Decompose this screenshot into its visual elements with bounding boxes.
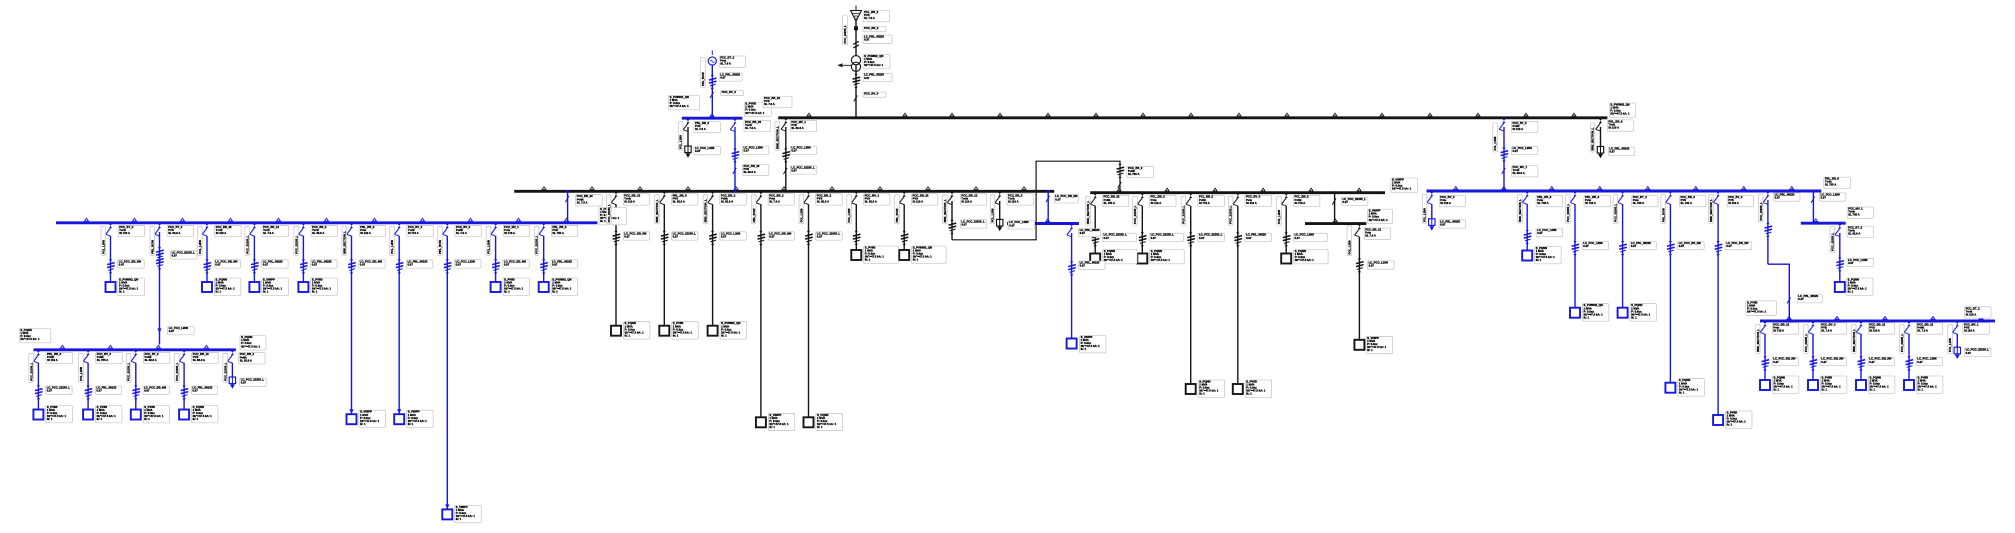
svg-text:PBL_BOW: PBL_BOW [438,240,442,254]
svg-text:Ik: 1: Ik: 1 [216,290,222,294]
svg-text:SL 7.6 A: SL 7.6 A [764,102,775,106]
svg-text:Ik: 1: Ik: 1 [263,290,269,294]
svg-text:PCC_BB_2: PCC_BB_2 [864,26,879,30]
svg-text:St 716 A: St 716 A [119,231,130,235]
svg-text:0.97: 0.97 [1513,149,1519,153]
svg-text:SL 7.6 A: SL 7.6 A [456,231,467,235]
svg-text:Ik: 1: Ik: 1 [1246,392,1252,396]
svg-text:0.97: 0.97 [1104,236,1110,240]
svg-text:SL 82.6 A: SL 82.6 A [193,358,205,362]
svg-text:PCL_L2N8: PCL_L2N8 [79,367,83,381]
svg-text:SL 7.6 A: SL 7.6 A [720,62,731,66]
svg-text:PCC_22235_L: PCC_22235_L [245,235,249,254]
svg-text:Ik: 1: Ik: 1 [504,290,510,294]
svg-text:SL 735 A: SL 735 A [1848,213,1859,217]
svg-text:0.97: 0.97 [1080,264,1086,268]
svg-text:PCC_22235_L: PCC_22235_L [29,362,33,381]
svg-text:SL 82.6 A: SL 82.6 A [791,126,803,130]
svg-text:Ik: 1: Ik: 1 [1727,423,1733,427]
svg-text:Sk"=47.5 kA: 1: Sk"=47.5 kA: 1 [1295,258,1315,262]
svg-text:Ik: 1: Ik: 1 [408,422,414,426]
svg-text:Sk"=47.5 kA: 1: Sk"=47.5 kA: 1 [1747,310,1767,314]
svg-text:0.97: 0.97 [864,38,870,42]
svg-text:PCC_22235_L: PCC_22235_L [1900,333,1904,352]
svg-text:St 119 A: St 119 A [1246,201,1257,205]
svg-text:SL 7.6 A: SL 7.6 A [695,127,706,131]
svg-text:0.97: 0.97 [1798,297,1804,301]
svg-text:BRK_SECTION_L: BRK_SECTION_L [704,199,708,222]
svg-text:SL 82.6 A: SL 82.6 A [721,199,733,203]
svg-text:Sk"=47.5 kA: 1: Sk"=47.5 kA: 1 [1392,187,1412,191]
svg-text:0.97: 0.97 [1631,244,1637,248]
svg-text:Ik: 1: Ik: 1 [1536,258,1542,262]
svg-text:0.97: 0.97 [96,389,102,393]
svg-text:0.97: 0.97 [1537,231,1543,235]
svg-text:0.97: 0.97 [552,262,558,266]
svg-text:Ik: 1: Ik: 1 [360,422,366,426]
svg-text:Ik: 1: Ik: 1 [1870,388,1876,392]
svg-text:0.97: 0.97 [1080,231,1086,235]
svg-text:BRK_SECTION_L: BRK_SECTION_L [1518,199,1522,222]
svg-text:PCC_22235_L: PCC_22235_L [1759,202,1763,221]
svg-text:Ik: 1: Ik: 1 [1679,390,1685,394]
svg-text:BRK_SECTION_L: BRK_SECTION_L [1709,199,1713,222]
svg-text:St 716 A: St 716 A [1773,329,1784,333]
svg-text:PCC_22235_L: PCC_22235_L [1182,205,1186,224]
svg-text:0.97: 0.97 [192,389,198,393]
svg-text:Sk"=47.5 kA: 1: Sk"=47.5 kA: 1 [241,344,261,348]
svg-text:0.97: 0.97 [169,329,175,333]
svg-text:PCL_L2N8: PCL_L2N8 [991,208,995,222]
svg-text:SL 82.6 A: SL 82.6 A [240,358,252,362]
svg-text:0.97: 0.97 [695,149,701,153]
svg-text:PBL_BOW: PBL_BOW [895,208,899,222]
svg-text:0.97: 0.97 [1775,195,1781,199]
svg-text:Sk"=47.5 kA: 1: Sk"=47.5 kA: 1 [864,63,884,67]
svg-text:Ik: 1: Ik: 1 [673,333,679,337]
svg-text:St 119 A: St 119 A [1728,201,1739,205]
svg-text:0.97: 0.97 [144,389,150,393]
svg-text:Ik: 1: Ik: 1 [1918,388,1924,392]
svg-text:St 119 A: St 119 A [1966,312,1977,316]
svg-text:BRK_SECTION_L: BRK_SECTION_L [1086,200,1090,223]
svg-text:PBL_BOW: PBL_BOW [752,208,756,222]
svg-text:SL 82.6 A: SL 82.6 A [312,231,324,235]
svg-text:0.97: 0.97 [263,262,269,266]
svg-text:0.97: 0.97 [1917,360,1923,364]
svg-text:0.97: 0.97 [1773,360,1779,364]
svg-text:St 716 A: St 716 A [504,231,515,235]
svg-text:St 119 A: St 119 A [913,199,924,203]
svg-text:0.97: 0.97 [456,262,462,266]
svg-text:0.97: 0.97 [408,262,414,266]
svg-text:0.97: 0.97 [312,262,318,266]
svg-text:BRK_SECTION_L: BRK_SECTION_L [655,199,659,222]
svg-text:Ik: 1: Ik: 1 [312,290,318,294]
svg-text:SL 82.6 A: SL 82.6 A [145,358,157,362]
svg-text:SL 735 A: SL 735 A [1633,201,1644,205]
svg-text:Ik: 1: Ik: 1 [913,258,919,262]
svg-text:BRK_SECTION_L: BRK_SECTION_L [1852,329,1856,352]
svg-text:Sk"=47.5 kA: 1: Sk"=47.5 kA: 1 [1151,258,1171,262]
svg-text:Sk"=47.5 kA: 1: Sk"=47.5 kA: 1 [1104,258,1124,262]
svg-text:PCC_22235_L: PCC_22235_L [175,362,179,381]
svg-text:PCL_L2N8: PCL_L2N8 [1277,209,1281,223]
svg-text:0.97: 0.97 [1295,236,1301,240]
svg-text:0.97: 0.97 [1609,150,1615,154]
svg-text:0.97: 0.97 [817,234,823,238]
svg-text:0.97: 0.97 [1199,236,1205,240]
svg-text:BRK_SECTION_L: BRK_SECTION_L [943,199,947,222]
svg-text:St 119 A: St 119 A [1151,201,1162,205]
svg-text:PCL_L2N8: PCL_L2N8 [847,208,851,222]
svg-text:SL 735 A: SL 735 A [97,358,108,362]
svg-text:PCC_22235_L: PCC_22235_L [127,362,131,381]
svg-text:PCL_L2N8: PCL_L2N8 [487,240,491,254]
svg-text:SL 82.6 A: SL 82.6 A [817,199,829,203]
svg-text:Ik: 1: Ik: 1 [817,425,823,429]
svg-text:PCC_BV_3: PCC_BV_3 [864,92,879,96]
svg-text:Ik: 1: Ik: 1 [97,417,103,421]
svg-text:Ik: 1: Ik: 1 [1584,315,1590,319]
svg-text:SL 7.6 A: SL 7.6 A [263,231,274,235]
svg-text:SL 82.6 A: SL 82.6 A [673,199,685,203]
svg-text:Ik: 1: Ik: 1 [1081,347,1087,351]
svg-text:0.97: 0.97 [720,75,726,79]
svg-text:SL 7.6 A: SL 7.6 A [745,126,756,130]
svg-text:0.97: 0.97 [1869,360,1875,364]
svg-text:0.97: 0.97 [1966,351,1972,355]
svg-text:SL 82.6 A: SL 82.6 A [1513,171,1525,175]
svg-text:SL 7.6 A: SL 7.6 A [1365,234,1376,238]
svg-text:Ik: 1: Ik: 1 [1367,348,1373,352]
svg-text:SL 7.6 A: SL 7.6 A [864,16,875,20]
svg-text:0.97: 0.97 [1583,244,1589,248]
svg-text:SL 7.6 A: SL 7.6 A [577,200,588,204]
svg-text:0.97: 0.97 [721,234,727,238]
svg-text:Sk"=47.5 kA: 1: Sk"=47.5 kA: 1 [1369,218,1389,222]
svg-text:0.97: 0.97 [624,234,630,238]
svg-text:Sk"=47.5 kA: 1: Sk"=47.5 kA: 1 [745,111,765,115]
svg-text:PCL_L2N8: PCL_L2N8 [1347,240,1351,254]
svg-text:PCL_L2N8: PCL_L2N8 [390,240,394,254]
svg-text:Ik: 1: Ik: 1 [1822,388,1828,392]
svg-text:St 119 A: St 119 A [1008,199,1019,203]
svg-text:0.97: 0.97 [215,262,221,266]
svg-text:0.97: 0.97 [1848,261,1854,265]
svg-text:0.97: 0.97 [961,222,967,226]
svg-text:PCC_22235_L: PCC_22235_L [1229,205,1233,224]
svg-text:SL 7.6 A: SL 7.6 A [769,199,780,203]
svg-text:St 119 A: St 119 A [360,231,371,235]
svg-text:PCL_L2N8: PCL_L2N8 [1423,208,1427,222]
svg-text:St 119 A: St 119 A [47,358,58,362]
svg-text:0.97: 0.97 [1055,197,1061,201]
svg-text:0.97: 0.97 [1246,236,1252,240]
svg-text:0.97: 0.97 [791,168,797,172]
svg-text:SL 735 A: SL 735 A [1825,183,1836,187]
svg-text:0.97: 0.97 [744,149,750,153]
svg-text:PBL_BOW: PBL_BOW [150,240,154,254]
svg-text:PCC_22235_L: PCC_22235_L [607,204,611,223]
svg-text:Ik: 1: Ik: 1 [456,517,462,521]
svg-text:PCL_L2N8: PCL_L2N8 [799,208,803,222]
svg-text:SL 82.6 A: SL 82.6 A [1848,232,1860,236]
svg-text:Ik: 1: Ik: 1 [193,417,199,421]
svg-text:St 716 A: St 716 A [408,231,419,235]
svg-text:0.97: 0.97 [241,381,247,385]
svg-text:0.97: 0.97 [1009,223,1015,227]
svg-text:0.97: 0.97 [119,262,125,266]
svg-text:St 119 A: St 119 A [1608,126,1619,130]
svg-text:St 716 A: St 716 A [1295,201,1306,205]
svg-text:SL 7.6 A: SL 7.6 A [1821,329,1832,333]
svg-text:PCC_BV_3: PCC_BV_3 [722,90,737,94]
svg-text:PCC_22235_L: PCC_22235_L [1133,205,1137,224]
svg-text:0.97: 0.97 [172,253,178,257]
svg-text:BRK_SECTION_L: BRK_SECTION_L [342,231,346,254]
svg-text:Ik: 1: Ik: 1 [600,219,606,223]
svg-text:PCL_L2N8: PCL_L2N8 [198,240,202,254]
svg-text:0.97: 0.97 [1679,244,1685,248]
svg-text:PCC_22235_L: PCC_22235_L [1614,203,1618,222]
svg-text:0.97: 0.97 [504,262,510,266]
svg-text:0.97: 0.97 [1369,263,1375,267]
svg-text:0.97: 0.97 [791,149,797,153]
svg-text:St 716 A: St 716 A [1585,201,1596,205]
svg-text:Ik: 1: Ik: 1 [865,258,871,262]
svg-text:0.97: 0.97 [1821,195,1827,199]
svg-text:0.97: 0.97 [864,76,870,80]
svg-text:SL 7.6 A: SL 7.6 A [1917,329,1928,333]
svg-text:0.97: 0.97 [1440,222,1446,226]
svg-text:St 119 A: St 119 A [216,231,227,235]
svg-text:PCL_L2N8: PCL_L2N8 [101,240,105,254]
svg-text:PCC_22235_L: PCC_22235_L [1566,203,1570,222]
svg-text:0.97: 0.97 [1821,360,1827,364]
svg-text:SL 82.6 A: SL 82.6 A [865,199,877,203]
svg-text:0.97: 0.97 [47,389,53,393]
svg-text:SL 82.6 A: SL 82.6 A [168,231,180,235]
svg-text:Ik: 1: Ik: 1 [721,333,727,337]
svg-text:St 119 A: St 119 A [1964,329,1975,333]
svg-text:St 119 A: St 119 A [1513,127,1524,131]
svg-text:Ik: 1: Ik: 1 [119,290,125,294]
svg-text:PCC_22235_L: PCC_22235_L [535,235,539,254]
svg-text:Sk"=47.5 kA: 1: Sk"=47.5 kA: 1 [670,104,690,108]
svg-text:Ik: 1: Ik: 1 [625,333,631,337]
svg-text:SL 735 A: SL 735 A [1104,201,1115,205]
svg-text:SL 735 A: SL 735 A [1128,172,1139,176]
svg-text:BRK_SECTION_L: BRK_SECTION_L [1756,329,1760,352]
svg-text:PCC_22235_L: PCC_22235_L [843,25,847,44]
svg-text:0.97: 0.97 [1151,236,1157,240]
svg-text:BRK_SECTION_L: BRK_SECTION_L [1591,127,1595,150]
svg-text:0.97: 0.97 [673,234,679,238]
svg-text:PCC_22235_L: PCC_22235_L [1830,232,1834,251]
svg-text:St 716 A: St 716 A [1199,201,1210,205]
svg-text:Sk"=47.5 kA: 1: Sk"=47.5 kA: 1 [20,337,40,341]
svg-text:PCL_L2N8: PCL_L2N8 [1948,338,1952,352]
svg-text:PCC_22235_L: PCC_22235_L [1804,333,1808,352]
svg-text:Ik: 1: Ik: 1 [1848,290,1854,294]
svg-text:Ik: 1: Ik: 1 [1774,388,1780,392]
svg-text:SL 735 A: SL 735 A [1537,201,1548,205]
svg-text:SL 735 A: SL 735 A [552,231,563,235]
svg-text:St 119 A: St 119 A [961,199,972,203]
svg-text:BRK_SECTION_L: BRK_SECTION_L [775,126,779,149]
svg-text:0.97: 0.97 [769,234,775,238]
svg-text:SL 82.6 A: SL 82.6 A [744,170,756,174]
svg-text:St 119 A: St 119 A [624,199,635,203]
svg-text:PCL_L2N8: PCL_L2N8 [1493,136,1497,150]
svg-text:0.97: 0.97 [1726,244,1732,248]
svg-text:0.97: 0.97 [1343,200,1349,204]
svg-text:PCC_22235_L: PCC_22235_L [294,235,298,254]
svg-text:PBL_BOW: PBL_BOW [701,72,705,86]
svg-text:0.97: 0.97 [360,262,366,266]
svg-text:Ik: 1: Ik: 1 [47,417,53,421]
svg-text:Ik: 1: Ik: 1 [769,425,775,429]
svg-text:PBL_BOW: PBL_BOW [1661,208,1665,222]
svg-text:PCC_22235_L: PCC_22235_L [223,362,227,381]
svg-text:St 119 A: St 119 A [1440,201,1451,205]
svg-text:Ik: 1: Ik: 1 [1199,392,1205,396]
svg-text:Ik: 1: Ik: 1 [1631,315,1637,319]
svg-text:Ik: 1: Ik: 1 [144,417,150,421]
svg-text:Sk"=47.5 kA: 1: Sk"=47.5 kA: 1 [1610,112,1630,116]
svg-text:St 119 A: St 119 A [1869,329,1880,333]
svg-text:SL 735 A: SL 735 A [1681,201,1692,205]
svg-text:PCL_L2N8: PCL_L2N8 [679,135,683,149]
svg-text:Ik: 1: Ik: 1 [552,290,558,294]
